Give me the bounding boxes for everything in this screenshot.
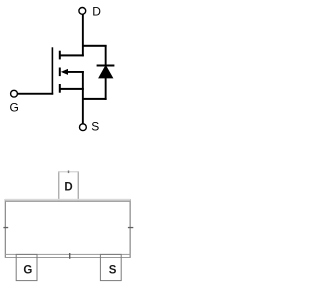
package top edge dark line xyxy=(5,201,131,202)
svg-text:D: D xyxy=(92,5,101,19)
wire drain vertical xyxy=(82,14,84,56)
wire source lead xyxy=(60,88,84,90)
package top edge light band xyxy=(5,199,131,201)
pin D tab right edge xyxy=(78,171,79,201)
pin G box xyxy=(16,254,37,280)
package bottom upper line xyxy=(5,254,131,255)
wire diode bottom xyxy=(82,98,107,100)
mosfet body arrow xyxy=(61,69,68,75)
terminal G circle xyxy=(11,90,18,97)
wire diode branch top xyxy=(82,45,107,47)
package left edge xyxy=(5,199,6,258)
package right edge xyxy=(130,199,131,258)
svg-text:D: D xyxy=(64,182,72,194)
mosfet body channel bar xyxy=(59,68,61,77)
diode cathode bar xyxy=(97,65,115,67)
mosfet gate line xyxy=(52,47,54,94)
wire source vertical xyxy=(82,71,84,124)
terminal D circle xyxy=(79,7,86,14)
pin D tab left edge xyxy=(58,171,59,201)
mosfet source channel bar xyxy=(59,84,61,93)
svg-text:G: G xyxy=(23,265,32,277)
terminal S circle xyxy=(80,124,87,131)
pin D tab top tick xyxy=(68,171,69,174)
svg-text:S: S xyxy=(109,265,117,277)
pin S box xyxy=(100,254,121,280)
svg-text:S: S xyxy=(91,120,99,134)
wire diode vertical lower xyxy=(105,78,107,100)
wire body lead xyxy=(63,71,84,73)
svg-text:G: G xyxy=(10,100,19,114)
wire gate lead xyxy=(17,93,53,95)
package bottom lower line xyxy=(5,257,131,258)
wire drain lead xyxy=(60,54,84,56)
package bottom center tick xyxy=(69,253,70,259)
package right side tick xyxy=(128,227,133,228)
package left side tick xyxy=(3,227,8,228)
wire diode vertical upper xyxy=(105,45,107,66)
diode anode triangle xyxy=(98,65,113,79)
pin D tab top edge xyxy=(58,171,78,172)
mosfet drain channel bar xyxy=(59,51,61,60)
